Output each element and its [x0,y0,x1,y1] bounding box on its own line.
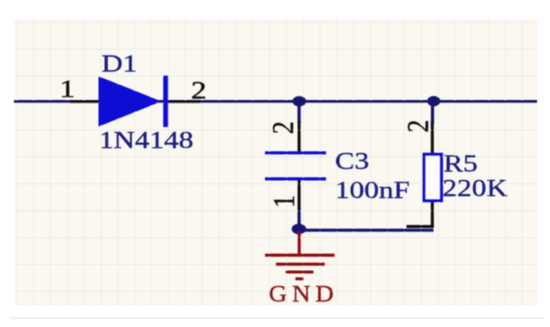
svg-text:2: 2 [267,121,301,134]
svg-text:2: 2 [191,77,207,105]
svg-text:2: 2 [402,120,436,133]
svg-text:C3: C3 [335,147,369,174]
svg-text:220K: 220K [443,174,509,201]
svg-text:1N4148: 1N4148 [99,126,193,153]
svg-text:GND: GND [269,281,339,307]
svg-text:D1: D1 [102,50,138,77]
svg-text:R5: R5 [444,150,478,177]
svg-text:100nF: 100nF [335,176,410,203]
svg-text:1: 1 [268,195,302,208]
svg-text:1: 1 [60,75,76,103]
